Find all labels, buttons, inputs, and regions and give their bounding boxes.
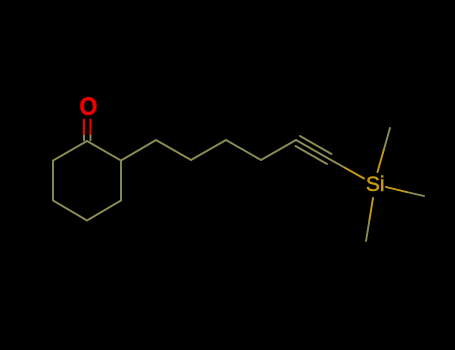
- svg-text:O: O: [79, 93, 97, 121]
- svg-text:Si: Si: [366, 173, 385, 196]
